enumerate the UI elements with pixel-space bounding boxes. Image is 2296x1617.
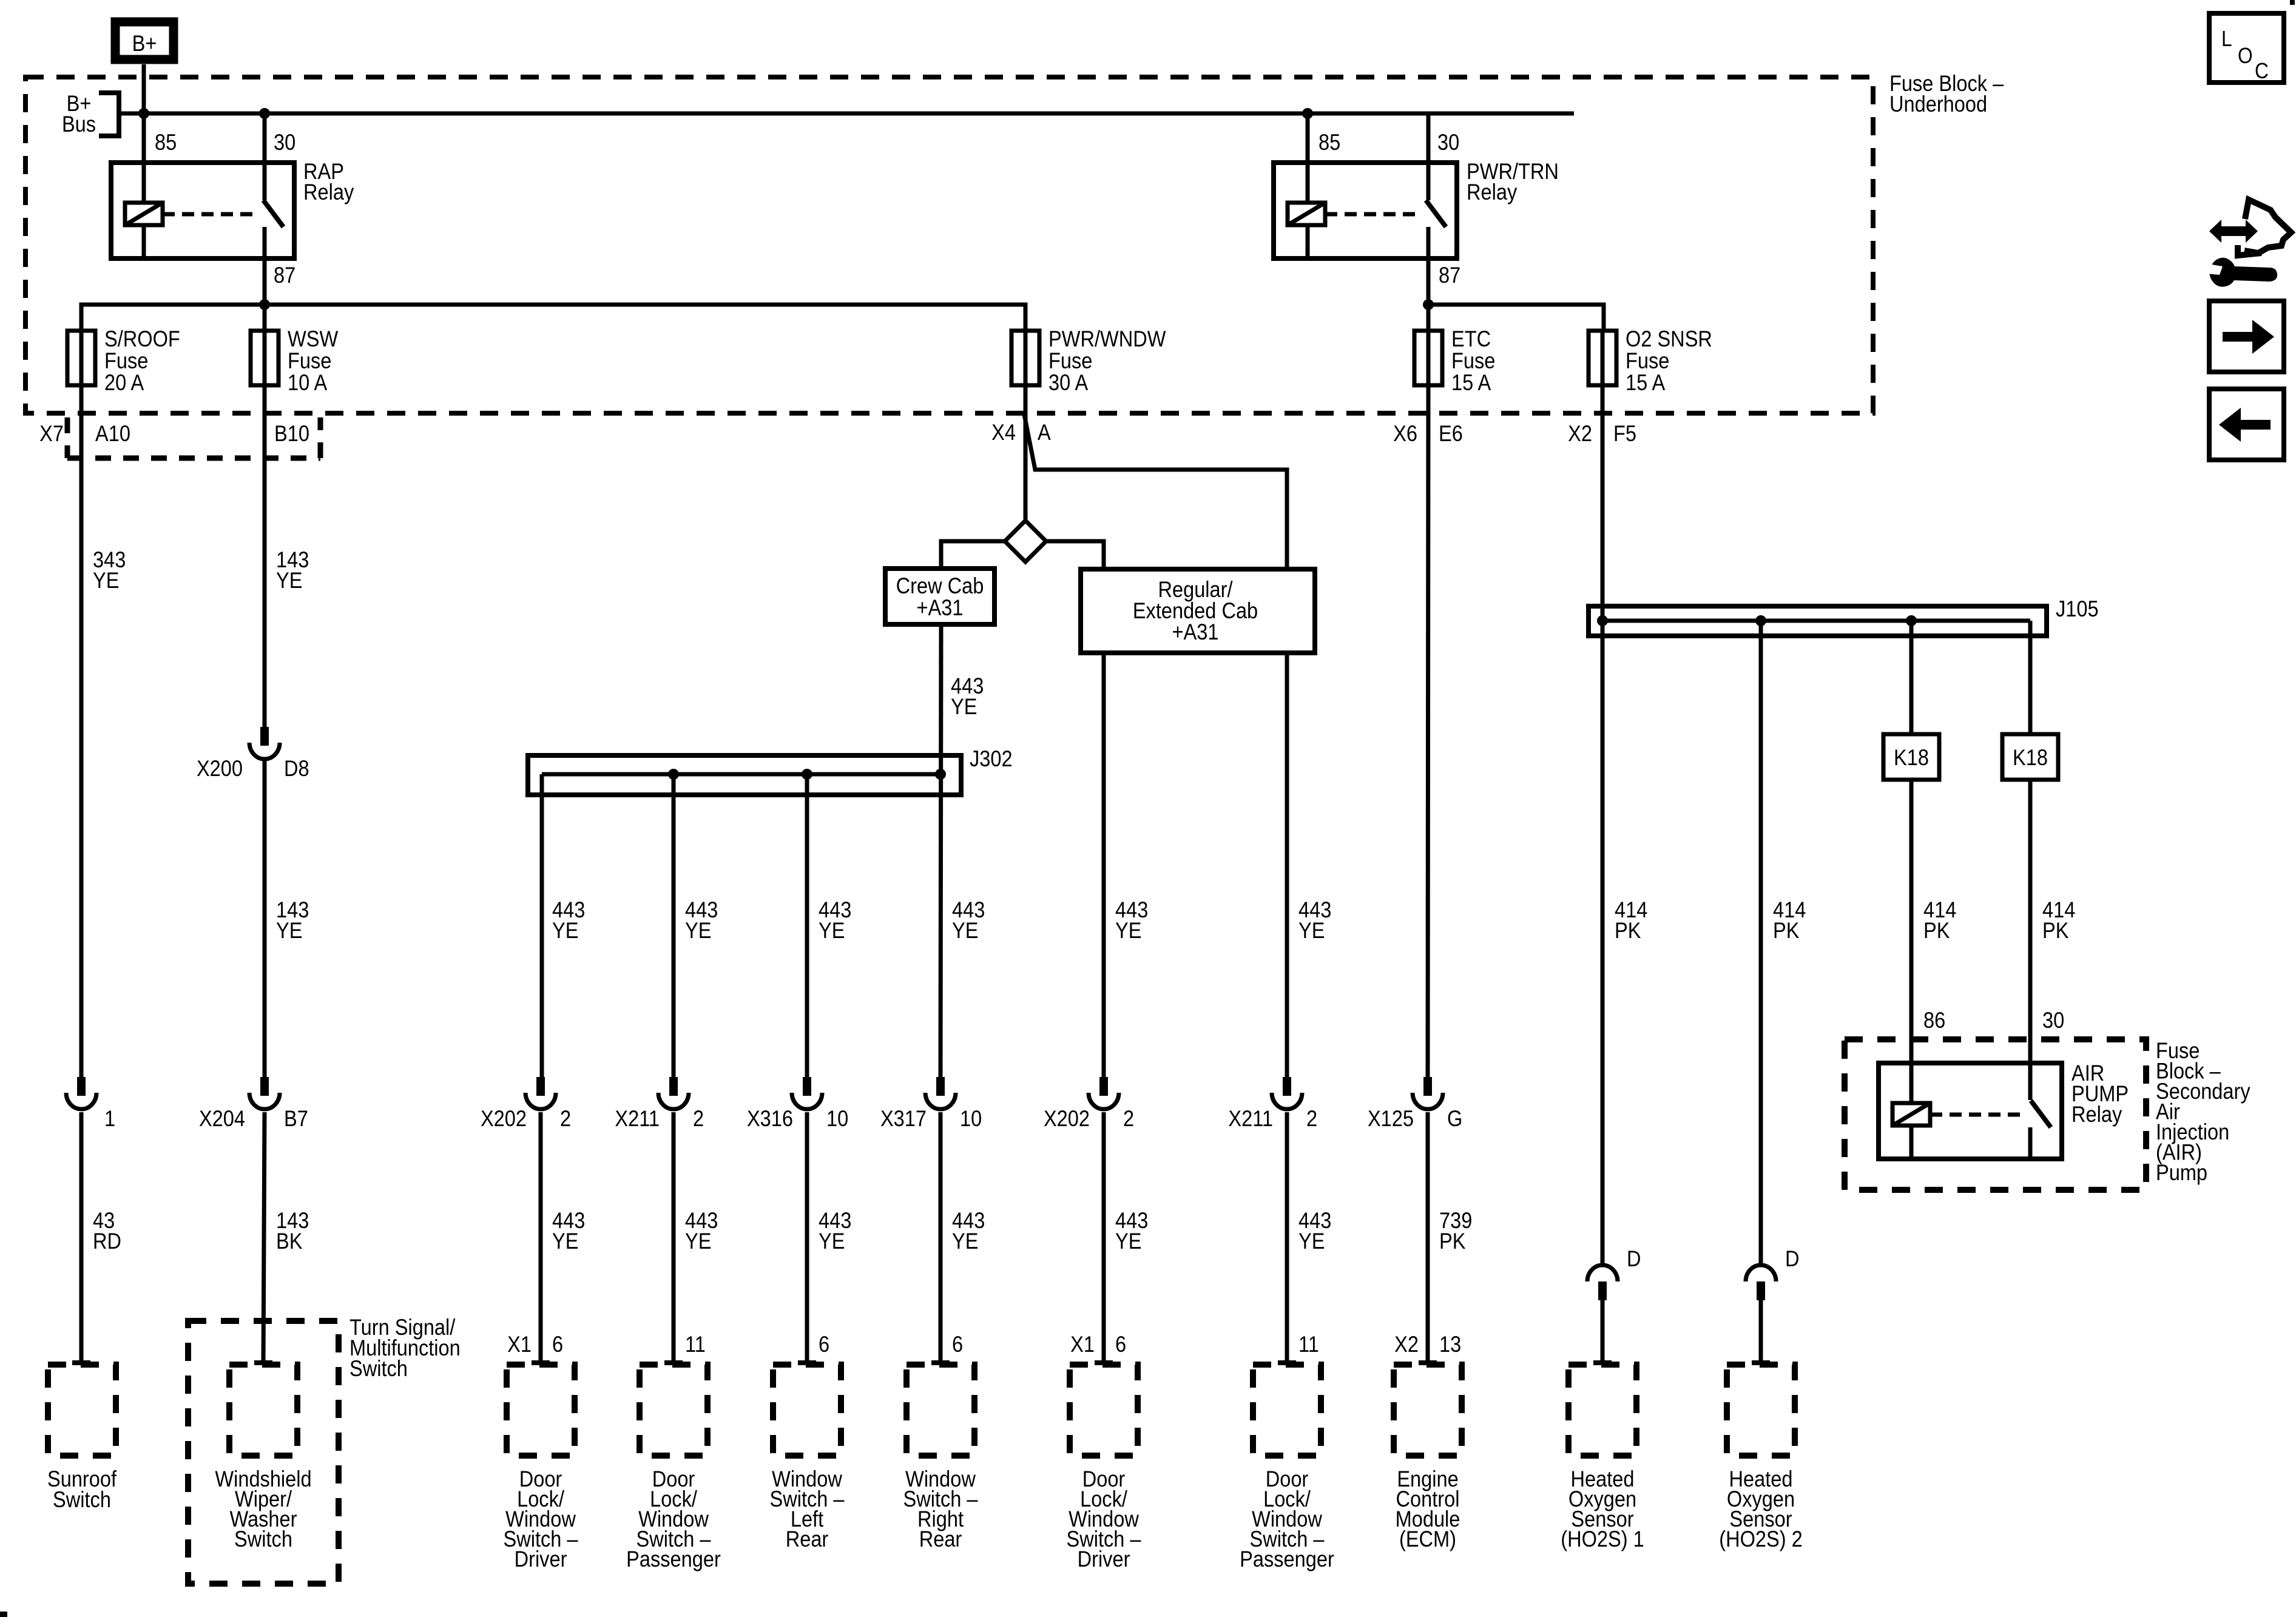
svg-text:6: 6: [819, 1332, 829, 1357]
svg-text:YE: YE: [276, 568, 302, 593]
svg-text:X4: X4: [991, 420, 1016, 445]
node J302 passenger: [668, 769, 679, 780]
svg-text:1: 1: [104, 1106, 115, 1131]
icon LOC box: [2209, 13, 2284, 83]
svg-text:Driver: Driver: [515, 1547, 567, 1571]
svg-text:86: 86: [1923, 1008, 1945, 1033]
fuse ETC 15 A: [1414, 331, 1442, 385]
svg-text:L: L: [2221, 27, 2232, 51]
node J302 right rear: [935, 769, 946, 780]
svg-text:YE: YE: [1115, 918, 1141, 943]
wire regular cab to X211 passenger: [1285, 653, 1289, 1077]
svg-text:YE: YE: [1298, 1229, 1325, 1254]
svg-text:Relay: Relay: [2071, 1102, 2122, 1127]
svg-text:D: D: [1627, 1246, 1641, 1271]
splice diamond S301: [1005, 521, 1046, 562]
connector X7 dashed box: [67, 417, 320, 458]
fuse O2 SNSR 15 A: [1589, 331, 1616, 385]
wire AIR coil stub: [1909, 1126, 1914, 1159]
switch dashed box col 1819: [1070, 1365, 1138, 1456]
icon forward arrow: [2223, 320, 2274, 354]
wire X202 to switch col 891: [539, 1112, 543, 1363]
wire RAP 87 feed line: [81, 305, 1025, 331]
wire X317 to switch col 1550: [939, 1112, 943, 1363]
node B+ bus / PWR-TRN 85: [1302, 108, 1313, 119]
node J105 in: [1597, 615, 1608, 626]
switch dashed box col 2353: [1394, 1365, 1462, 1456]
svg-text:BK: BK: [276, 1229, 302, 1254]
wire D connector to HO2S1: [1601, 1300, 1605, 1363]
svg-text:+A31: +A31: [917, 595, 964, 620]
svg-text:PK: PK: [1615, 918, 1641, 943]
fuse K18 b box: [2002, 734, 2058, 780]
svg-text:X2: X2: [1394, 1332, 1419, 1357]
node B+ bus / B+ wire: [138, 108, 149, 119]
svg-text:X200: X200: [197, 756, 243, 781]
connector D HO2S2: [1746, 1265, 1776, 1281]
svg-text:K18: K18: [2013, 745, 2048, 770]
svg-text:YE: YE: [552, 918, 578, 943]
svg-text:X202: X202: [1044, 1106, 1090, 1131]
icon wrench: [2209, 258, 2277, 287]
connector X317 column 1550: [936, 1077, 945, 1096]
svg-text:2: 2: [693, 1106, 704, 1131]
corner mark bottom left: [0, 1612, 7, 1617]
svg-text:B+: B+: [132, 31, 157, 56]
svg-text:K18: K18: [1894, 745, 1929, 770]
icon hand double arrow: [2209, 220, 2258, 243]
fuse S/ROOF 20 A: [67, 331, 95, 385]
relay RAP: [111, 163, 294, 258]
bus bar B+ terminal box: [115, 22, 174, 59]
icon forward arrow box: [2209, 301, 2284, 372]
wire RAP switch to 87 junction: [263, 227, 267, 331]
wire X4 jog to regular cab: [1024, 414, 1287, 569]
svg-text:10: 10: [960, 1106, 982, 1131]
relay PWR/TRN: [1274, 163, 1457, 258]
wire PWR/TRN 87 feed line: [1428, 305, 1604, 331]
fuse K18 a box: [1883, 734, 1939, 780]
svg-text:B7: B7: [284, 1106, 308, 1131]
svg-text:2: 2: [1123, 1106, 1134, 1131]
junction block J105: [1589, 606, 2047, 636]
node J302 left rear: [802, 769, 812, 780]
node J105 k18 a: [1906, 615, 1917, 626]
turn signal multifunction switch dashed box: [188, 1321, 339, 1584]
svg-text:Rear: Rear: [919, 1527, 962, 1551]
wire crew cab to J302: [940, 624, 941, 1077]
svg-text:X2: X2: [1568, 421, 1592, 446]
connector X202 column 1819: [1099, 1077, 1108, 1096]
wire X125 to switch col 2353: [1426, 1112, 1430, 1363]
wire X204 to wiper switch: [263, 1112, 265, 1363]
crew cab option box: [885, 569, 994, 624]
svg-text:85: 85: [155, 130, 177, 155]
svg-text:YE: YE: [819, 918, 845, 943]
connector X204 B7: [260, 1077, 269, 1096]
wire X200 to X204: [263, 760, 267, 1077]
svg-text:PK: PK: [1439, 1229, 1465, 1254]
wire J105 to HO2S2: [1759, 621, 1763, 1263]
junction block J302: [528, 755, 961, 795]
svg-text:6: 6: [1115, 1332, 1126, 1357]
svg-text:30: 30: [274, 130, 295, 155]
node 87 feed / ETC fuse: [1423, 299, 1434, 310]
svg-text:2: 2: [1306, 1106, 1317, 1131]
svg-text:6: 6: [552, 1332, 563, 1357]
connector D HO2S1: [1587, 1265, 1618, 1281]
wire diamond to crew cab box: [941, 541, 1005, 569]
connector X316 column 1330: [803, 1077, 811, 1096]
svg-text:Bus: Bus: [62, 112, 96, 137]
wire J105 to K18 b: [2028, 621, 2033, 1100]
svg-text:X1: X1: [507, 1332, 532, 1357]
svg-text:13: 13: [1439, 1332, 1461, 1357]
svg-text:X1: X1: [1070, 1332, 1095, 1357]
svg-text:PK: PK: [1773, 918, 1799, 943]
wire D connector to HO2S2: [1759, 1300, 1763, 1363]
relay AIR PUMP: [1879, 1063, 2062, 1159]
connector X125 column 2353: [1423, 1077, 1432, 1096]
svg-text:15 A: 15 A: [1626, 370, 1666, 395]
svg-text:10 A: 10 A: [288, 370, 328, 395]
regular extended cab option box: [1081, 569, 1315, 653]
svg-text:YE: YE: [819, 1229, 845, 1254]
fuse block secondary AIR dashed box: [1845, 1039, 2146, 1190]
wire X202 to switch col 1819: [1102, 1112, 1106, 1363]
svg-text:J302: J302: [970, 746, 1013, 771]
node 87 feed / WSW fuse: [259, 299, 270, 310]
svg-text:YE: YE: [1115, 1229, 1141, 1254]
svg-text:11: 11: [1298, 1332, 1319, 1357]
svg-text:30: 30: [1437, 130, 1459, 155]
switch dashed box col 891: [507, 1365, 575, 1456]
svg-text:YE: YE: [1298, 918, 1325, 943]
wire diamond to regular cab box: [1046, 541, 1104, 569]
fuse WSW 10 A: [251, 331, 279, 385]
svg-text:X211: X211: [615, 1106, 660, 1131]
node J105 ho2s2: [1755, 615, 1766, 626]
svg-text:YE: YE: [93, 568, 119, 593]
svg-text:11: 11: [685, 1332, 706, 1357]
svg-text:(HO2S) 1: (HO2S) 1: [1561, 1527, 1644, 1551]
svg-text:O: O: [2238, 44, 2253, 68]
icon back arrow: [2219, 408, 2271, 442]
svg-text:+A31: +A31: [1172, 619, 1219, 644]
connector X211 column 2121: [1283, 1077, 1291, 1096]
svg-text:(ECM): (ECM): [1399, 1527, 1456, 1551]
connector X200 D8: [260, 727, 269, 746]
svg-text:20 A: 20 A: [104, 370, 144, 395]
svg-text:Underhood: Underhood: [1889, 92, 1987, 116]
svg-text:Driver: Driver: [1078, 1547, 1130, 1571]
HO2S2 dashed box: [1727, 1365, 1795, 1456]
svg-text:X316: X316: [747, 1106, 793, 1131]
wire X316 to switch col 1330: [805, 1112, 809, 1363]
svg-text:10: 10: [826, 1106, 848, 1131]
svg-text:RD: RD: [93, 1229, 121, 1254]
svg-text:X317: X317: [880, 1106, 927, 1131]
svg-text:2: 2: [560, 1106, 571, 1131]
svg-text:YE: YE: [552, 1229, 578, 1254]
wire S/ROOF fuse to sunroof column: [79, 385, 84, 1077]
svg-text:G: G: [1447, 1106, 1462, 1131]
wire AIR switch stub: [2028, 1127, 2033, 1159]
svg-text:D: D: [1785, 1246, 1800, 1271]
wire J105 to K18 a: [1909, 621, 1914, 1103]
svg-text:85: 85: [1319, 130, 1340, 155]
B+ Bus bracket: [99, 93, 119, 136]
svg-text:6: 6: [952, 1332, 963, 1357]
fuse PWR/WNDW 30 A: [1011, 331, 1039, 385]
wire WSW fuse down to X200: [263, 385, 267, 727]
svg-text:YE: YE: [952, 1229, 978, 1254]
sunroof switch dashed box: [48, 1365, 116, 1456]
svg-text:Switch: Switch: [53, 1487, 111, 1512]
svg-text:A10: A10: [95, 421, 130, 446]
svg-text:X202: X202: [481, 1106, 527, 1131]
svg-text:30 A: 30 A: [1048, 370, 1089, 395]
svg-text:D8: D8: [284, 756, 309, 781]
svg-text:YE: YE: [685, 1229, 711, 1254]
switch dashed box col 1550: [907, 1365, 974, 1456]
svg-text:87: 87: [1439, 263, 1460, 288]
svg-text:J105: J105: [2056, 596, 2099, 621]
icon back arrow box: [2209, 389, 2284, 460]
svg-text:Switch: Switch: [234, 1527, 292, 1551]
svg-text:Passenger: Passenger: [1240, 1547, 1334, 1571]
svg-text:Relay: Relay: [1467, 180, 1518, 204]
wire PWR/TRN relay 85: [1306, 113, 1310, 258]
svg-text:YE: YE: [685, 918, 711, 943]
svg-text:X6: X6: [1393, 421, 1417, 446]
svg-text:YE: YE: [276, 918, 302, 943]
svg-text:Passenger: Passenger: [626, 1547, 721, 1571]
wire O2 fuse to J105 and HO2S1: [1601, 385, 1605, 1263]
corner mark top right: [2290, 0, 2295, 5]
svg-text:X211: X211: [1228, 1106, 1273, 1131]
node B+ bus / RAP 30: [259, 108, 270, 119]
wire regular cab to X202 driver: [1102, 653, 1106, 1077]
svg-text:15 A: 15 A: [1451, 370, 1491, 395]
svg-text:30: 30: [2042, 1008, 2064, 1033]
svg-text:YE: YE: [952, 918, 978, 943]
HO2S1 dashed box: [1568, 1365, 1636, 1456]
svg-text:F5: F5: [1613, 421, 1636, 446]
switch dashed box col 2121: [1253, 1365, 1321, 1456]
svg-text:Pump: Pump: [2156, 1160, 2207, 1185]
svg-text:Switch: Switch: [349, 1356, 408, 1381]
wire B+ to RAP relay 85: [142, 64, 146, 258]
svg-text:YE: YE: [951, 694, 977, 719]
wire PWR/TRN relay 30: [1427, 113, 1431, 200]
wire RAP relay 30 from bus: [263, 113, 267, 200]
connector inline col sunroof: [77, 1077, 86, 1096]
wire sunroof connector to switch: [79, 1112, 84, 1363]
switch dashed box col 1330: [773, 1365, 841, 1456]
wire J302 drop driver: [540, 774, 544, 1077]
wire B+ bus: [119, 112, 1574, 116]
switch dashed box col 1110: [640, 1365, 707, 1456]
svg-text:C: C: [2255, 59, 2269, 83]
connector X211 column 1110: [669, 1077, 678, 1096]
fuse block underhood dashed outline: [25, 77, 1873, 413]
svg-text:87: 87: [274, 263, 295, 288]
svg-text:Relay: Relay: [303, 180, 354, 204]
svg-text:A: A: [1038, 420, 1051, 445]
wire PWR/TRN switch to 87 junction: [1427, 227, 1431, 331]
svg-text:PK: PK: [1923, 918, 1950, 943]
wire ETC fuse to X125: [1428, 385, 1428, 1077]
svg-text:E6: E6: [1439, 421, 1463, 446]
wire J302 drop left rear: [805, 774, 809, 1077]
svg-text:X7: X7: [39, 421, 64, 446]
connector X202 column 891: [536, 1077, 545, 1096]
svg-text:Rear: Rear: [786, 1527, 829, 1551]
svg-text:(HO2S) 2: (HO2S) 2: [1719, 1527, 1802, 1551]
wire X211 to switch col 2121: [1285, 1112, 1289, 1363]
wire X211 to switch col 1110: [672, 1112, 676, 1363]
svg-text:X204: X204: [199, 1106, 245, 1131]
wire J302 drop passenger: [672, 774, 676, 1077]
svg-text:B10: B10: [274, 421, 309, 446]
wire X4 to splice diamond: [1024, 413, 1028, 521]
svg-text:PK: PK: [2042, 918, 2068, 943]
windshield wiper washer switch dashed box: [229, 1365, 297, 1456]
wire PWR/WNDW fuse to X4: [1024, 385, 1028, 413]
svg-text:X125: X125: [1368, 1106, 1414, 1131]
